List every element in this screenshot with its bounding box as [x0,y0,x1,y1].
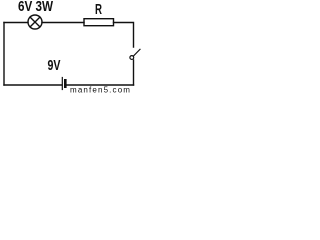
svg-text:6V 3W: 6V 3W [18,0,53,15]
wire bottom-left from battery to left rail [4,84,62,86]
wire left rail [3,23,5,86]
switch S (open knife switch) [130,49,140,59]
svg-text:manfen5.com: manfen5.com [70,86,131,95]
battery (9V cell): long positive plate [61,78,63,90]
wire below switch down to bottom rail [133,60,135,85]
resistor R [84,19,114,26]
battery short negative plate [64,80,67,86]
wire resistor to top-right corner and down to switch [114,23,134,48]
svg-text:R: R [95,2,102,18]
wire top-left from left rail to lamp [4,22,28,24]
wire bottom-right from switch rail to battery [67,84,134,86]
lamp L1 (circle with X) [28,15,42,29]
svg-text:9V: 9V [48,58,61,74]
wire lamp to resistor [42,22,84,24]
